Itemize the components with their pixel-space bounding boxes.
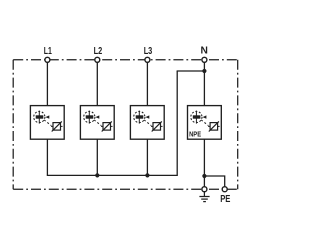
terminal L1	[45, 57, 50, 62]
wire N to SPD4 (NPE)	[203, 60, 205, 106]
wire SPD1 bottom to N-bus	[46, 139, 48, 175]
junction SPD4 / PE branch	[202, 174, 206, 178]
svg-text:N: N	[201, 46, 208, 57]
svg-text:L2: L2	[94, 46, 103, 57]
terminal PE	[222, 187, 227, 192]
junction N-bus / SPD3	[145, 173, 149, 177]
wire N-bus riser	[176, 71, 178, 176]
wire SPD4 bottom to earth terminal	[203, 139, 205, 189]
enclosure boundary right edge (dash-dot)	[237, 60, 239, 189]
enclosure boundary left edge (dash-dot)	[12, 60, 14, 189]
SPD module 4 (N-PE): varistor with thermal disconnector	[188, 106, 222, 140]
terminal L3	[145, 57, 150, 62]
wire SPD3 bottom to N-bus	[146, 139, 148, 175]
terminal N	[202, 57, 207, 62]
SPD module 1 (L1): varistor with thermal disconnector	[30, 106, 64, 140]
enclosure boundary bottom edge (dash-dot)	[13, 188, 238, 190]
wire L1 to SPD1	[46, 60, 48, 106]
SPD module 3 (L3): varistor with thermal disconnector	[130, 106, 164, 140]
wire SPD2 bottom to N-bus	[96, 139, 98, 175]
wire N-bus horizontal run	[47, 174, 177, 176]
wire riser to node N junction	[177, 70, 205, 72]
svg-text:NPE: NPE	[189, 129, 201, 138]
ground symbol	[199, 192, 209, 202]
wire L3 to SPD3	[146, 60, 148, 106]
junction N-bus / SPD2	[95, 173, 99, 177]
wire L2 to SPD2	[96, 60, 98, 106]
svg-text:PE: PE	[220, 194, 230, 205]
terminal L2	[95, 57, 100, 62]
svg-text:L1: L1	[44, 46, 52, 57]
wire earth branch to PE terminal	[204, 176, 224, 189]
junction below N	[202, 69, 206, 73]
terminal earth	[202, 187, 207, 192]
svg-text:L3: L3	[144, 46, 153, 57]
SPD module 2 (L2): varistor with thermal disconnector	[80, 106, 114, 140]
enclosure boundary top edge (dash-dot)	[13, 59, 238, 61]
